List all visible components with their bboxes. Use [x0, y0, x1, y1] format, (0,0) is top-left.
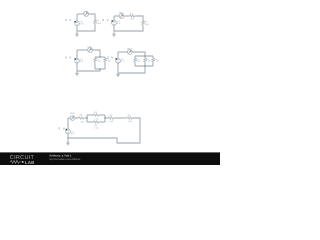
wire [87, 121, 93, 123]
wire [152, 56, 154, 58]
plus terminal mark [112, 20, 114, 22]
wire [87, 114, 93, 116]
wire [76, 14, 78, 21]
wire [99, 121, 105, 123]
svg-text:1 kΩ: 1 kΩ [136, 60, 141, 63]
wire [89, 14, 95, 20]
svg-text:5 V: 5 V [80, 60, 84, 63]
plus terminal mark [116, 58, 118, 60]
ammeter AM1 [119, 14, 124, 19]
svg-text:1 kΩ: 1 kΩ [96, 60, 101, 63]
resistor R6 [108, 117, 114, 119]
ammeter AM1 [70, 116, 75, 121]
voltage source V1 [75, 21, 80, 26]
wire return path [68, 118, 140, 143]
plus terminal mark [66, 129, 68, 131]
wire [92, 50, 100, 57]
wire [68, 117, 70, 119]
svg-text:5 V: 5 V [65, 56, 72, 59]
svg-text:5 V: 5 V [80, 23, 84, 26]
voltage source V1 [75, 58, 80, 63]
wire [114, 117, 127, 119]
wire [135, 16, 143, 21]
resistor R3 [93, 114, 99, 116]
wire [94, 56, 96, 59]
ground [112, 31, 116, 36]
wire [104, 56, 106, 59]
wire [75, 117, 79, 119]
wire [134, 56, 136, 58]
ammeter AM1 [88, 48, 93, 53]
resistor R2 [144, 58, 146, 62]
wire box right [104, 115, 106, 122]
wire [144, 62, 146, 66]
svg-text:5 V: 5 V [117, 22, 121, 25]
wire [114, 25, 143, 31]
CircuitLab logo [10, 155, 35, 165]
wire [77, 49, 88, 51]
wire [113, 16, 115, 21]
svg-text:5 V: 5 V [102, 19, 109, 22]
wire [76, 26, 78, 31]
wire [94, 62, 96, 69]
resistor R1 [94, 58, 96, 62]
resistor R3 [152, 58, 154, 62]
svg-text:AM1: AM1 [119, 12, 124, 15]
ground [75, 71, 79, 76]
svg-text:5 V: 5 V [59, 127, 66, 130]
ammeter AM1 [127, 50, 132, 55]
resistor R2 [104, 58, 106, 62]
wire [118, 51, 127, 53]
svg-text:5 V: 5 V [107, 56, 114, 59]
wire [152, 62, 154, 66]
plus terminal mark [75, 58, 77, 60]
wire [113, 25, 115, 31]
wire [77, 24, 95, 31]
junction [104, 117, 106, 119]
wire rail top [95, 56, 105, 58]
junction [99, 56, 101, 58]
svg-text:1 kΩ: 1 kΩ [154, 60, 159, 63]
resistor R7 [127, 117, 133, 119]
ground [75, 31, 79, 36]
wire [124, 15, 130, 17]
voltage source V1 [116, 58, 121, 63]
svg-text:1 kΩ: 1 kΩ [94, 117, 99, 120]
wire rail top [135, 55, 153, 57]
svg-text:1 kΩ: 1 kΩ [94, 127, 99, 130]
wire [117, 52, 119, 58]
resistor R1 [130, 15, 136, 17]
junction [99, 68, 101, 70]
ground [116, 73, 120, 77]
wire rail bottom [95, 68, 105, 70]
svg-text:AM1: AM1 [87, 46, 92, 49]
wire [118, 66, 145, 73]
plus terminal mark [75, 21, 77, 23]
wire [144, 56, 146, 58]
wire [77, 13, 84, 15]
svg-text:http://circuitlab.com/c/59fm4e: http://circuitlab.com/c/59fm4e [49, 158, 81, 161]
voltage source V1 [112, 21, 117, 26]
svg-text:1 kΩ: 1 kΩ [144, 23, 149, 26]
svg-text:LAB: LAB [25, 160, 35, 165]
junction [67, 137, 69, 139]
wire [117, 63, 119, 73]
junction [86, 117, 88, 119]
junction [144, 65, 146, 67]
voltage source V1 [66, 129, 71, 134]
wire [104, 62, 106, 69]
svg-text:1 kΩ: 1 kΩ [96, 22, 101, 25]
svg-text:AM1: AM1 [84, 10, 89, 13]
ground [66, 138, 70, 145]
wire [105, 117, 108, 119]
resistor R1 [134, 58, 136, 62]
svg-text:5 V: 5 V [71, 133, 75, 136]
wire [134, 62, 136, 66]
wire box left [86, 115, 88, 122]
footer watermark bar [0, 152, 220, 165]
resistor R4 [93, 121, 99, 123]
resistor R2 [142, 21, 144, 25]
wire [84, 117, 87, 119]
wire [132, 52, 145, 56]
svg-text:AM1: AM1 [70, 112, 75, 115]
ammeter AM1 [84, 12, 89, 17]
svg-text:5 V: 5 V [121, 60, 125, 63]
resistor R1 [94, 20, 96, 24]
svg-text:1 kΩ: 1 kΩ [106, 60, 111, 63]
svg-text:1 kΩ: 1 kΩ [128, 120, 133, 123]
svg-text:5 V: 5 V [65, 19, 72, 22]
wire [77, 69, 100, 71]
wire [67, 118, 69, 129]
wire rail bottom [135, 65, 153, 67]
wire [67, 134, 69, 138]
wire [76, 50, 78, 58]
svg-text:AM1: AM1 [127, 48, 132, 51]
svg-text:1 kΩ: 1 kΩ [109, 120, 114, 123]
junction [144, 55, 146, 57]
svg-text:1 kΩ: 1 kΩ [146, 60, 151, 63]
svg-text:1 kΩ: 1 kΩ [130, 18, 135, 21]
wire [99, 114, 105, 116]
svg-text:1 kΩ: 1 kΩ [80, 121, 85, 124]
wire [76, 63, 78, 71]
resistor R5 [79, 117, 85, 119]
wire [114, 15, 119, 17]
